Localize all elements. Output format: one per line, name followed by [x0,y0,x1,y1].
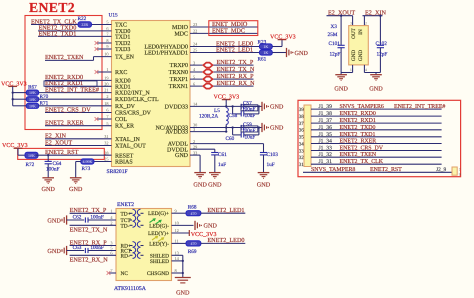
svg-text:19: 19 [104,76,108,81]
label J1_38 [319,111,333,117]
svg-text:C58: C58 [229,113,238,119]
wire GND to C63 [67,250,85,252]
connector pin 38 wire ENET2_RXD0 [311,115,442,117]
svg-text:8: 8 [175,268,177,273]
net label ENET2_RXER J1 [340,139,377,145]
svg-text:ENET2_LED0: ENET2_LED0 [207,237,244,244]
value 100nF C63 [90,245,104,251]
net label E2_XOUT [45,139,72,146]
svg-text:3: 3 [350,21,352,25]
net label ENET2_TXD0 [39,25,77,32]
wire VCC to R72 [18,154,25,156]
svg-text:GND: GND [175,153,189,159]
wire ENET2_TXEN [45,57,112,61]
value SR8201F [107,169,128,175]
ground GND C62 [47,215,66,224]
svg-text:GND: GND [295,50,309,57]
svg-text:9: 9 [459,173,461,177]
pin number 39 J1 [299,107,305,113]
svg-text:GND: GND [358,50,364,61]
designator C102 [376,41,388,47]
resistor R68 [186,211,201,216]
svg-text:11: 11 [175,239,179,244]
svg-text:GND: GND [334,86,348,93]
svg-text:22: 22 [193,29,197,34]
ferrite bead ENET2_TX_P [203,63,212,68]
net label ENET2_TX_N [217,66,255,73]
power VCC_3V3 LED [270,35,296,41]
resistor R67 [26,90,38,95]
net label ENET2_TX_N [70,226,108,233]
svg-text:23: 23 [193,22,197,27]
designator R72 [26,162,35,168]
U1 right pin names [144,25,188,159]
wire ENET2_INT_TREE# [39,92,112,94]
designator C57 [243,101,252,107]
IC U15 SR8201F body [112,21,191,167]
crystal X3 body [349,26,369,65]
svg-text:ENET2_RXER: ENET2_RXER [340,139,377,145]
svg-text:12pF: 12pF [330,51,341,57]
wire ENET2_LED1 to R61 [190,52,259,54]
net label ENET2_RX_N [217,80,256,87]
junction dot C102 tap [379,15,381,17]
label J1_34 [319,139,333,145]
wire ENET2_TX_N [70,224,116,226]
wire RBIAS to R73 [94,161,112,163]
svg-text:ENET_MDC: ENET_MDC [212,27,245,34]
svg-text:9: 9 [175,208,177,213]
crystal pin numbers [350,21,367,72]
ground GND C57 [262,102,284,111]
svg-text:SNVS_TAMPER8: SNVS_TAMPER8 [311,167,355,173]
designator C64 [53,161,62,167]
pin number 37 J1 [299,121,305,127]
svg-text:GND: GND [270,125,284,132]
wire DVDDL pin29 [190,149,215,152]
selection box 100nF C59 [241,126,258,132]
svg-text:RX_ER: RX_ER [115,124,134,130]
wire DVDD33 rail [190,105,259,107]
wire pin12 to VCC [172,232,190,234]
svg-text:29: 29 [193,144,197,149]
svg-text:12pF: 12pF [377,51,388,57]
svg-text:ENET2_CRS_DV: ENET2_CRS_DV [340,146,384,152]
label J1_35 [319,132,333,138]
wire VCC to R67 [13,92,27,94]
capacitor C102 [377,16,384,73]
svg-text:32: 32 [299,155,305,161]
connector pin 31 wire ENET2_TX_CLK [311,163,442,165]
wire ENET2_RXD0 [45,79,112,81]
svg-text:RXD1: RXD1 [115,84,131,90]
red highlight box MDIO MDC [209,21,258,36]
net label ENET2_RX_P [70,239,108,246]
svg-text:10K: 10K [29,90,36,95]
svg-text:100nF: 100nF [46,167,60,173]
crystal X3 pin names [351,27,364,61]
designator C60 [226,136,235,142]
svg-text:J1_38: J1_38 [319,111,333,117]
svg-text:R67: R67 [28,85,37,91]
svg-text:ENET2_TX_CLK: ENET2_TX_CLK [340,159,384,165]
designator R70 [40,94,49,100]
wire pin14 shield [172,260,183,262]
svg-text:R22: R22 [78,16,87,22]
capacitor C57 [241,104,259,109]
wire ENET2_TXD0 [38,30,112,32]
svg-text:2: 2 [106,94,108,99]
svg-text:R68: R68 [188,205,197,211]
ferrite bead ENET2_TX_N [203,70,212,75]
svg-text:RXD3/CLK_CTL: RXD3/CLK_CTL [115,97,159,103]
ground GND pin33 [193,173,207,189]
resistor R69 [186,241,201,246]
svg-text:ENET2_RXD1: ENET2_RXD1 [340,118,376,124]
svg-text:25M: 25M [328,32,338,38]
wire ENET2_TX_P [70,212,116,214]
net label ENET2_INT_TREE# [45,86,99,93]
red highlight box connector [298,100,461,176]
net label ENET2_RXD1 [45,80,83,87]
power VCC_3V3 main [214,94,240,106]
svg-text:C61: C61 [218,152,227,158]
resistor R72 [25,152,38,158]
wire R23 to VCC [272,40,282,47]
svg-text:TD-: TD- [121,223,130,229]
net label ENET2_TXEN [45,54,84,61]
svg-text:TXD1: TXD1 [115,34,130,40]
net label ENET2_RST J2 [370,167,402,173]
svg-text:R23: R23 [258,40,267,46]
svg-text:GND: GND [270,103,284,110]
svg-text:ENET2_RXER: ENET2_RXER [45,120,84,127]
wire VCC to R70 [13,98,27,100]
wire ENET2_CRS_DV [45,112,112,114]
capacitor C101 [338,16,345,73]
svg-text:4.99K: 4.99K [82,159,92,164]
wire E2_XIN crystal [363,16,383,26]
svg-text:TRXP0: TRXP0 [170,63,188,69]
designator X3 [331,24,338,30]
wire crystal gnd right [364,65,380,73]
wire R68 to ENET2_LED1 [201,212,245,214]
svg-text:XTAL_IN: XTAL_IN [115,137,141,143]
net label ENET2_CRS_DV J1 [340,146,384,152]
transformer left pin names [121,211,132,277]
ground GND R73 [69,178,83,193]
svg-text:C103: C103 [267,152,279,158]
ferrite bead ENET2_RX_P [203,77,212,82]
svg-text:LED1/PHYADD1: LED1/PHYADD1 [144,51,188,57]
svg-text:9: 9 [106,44,108,49]
value 100nF C59 [242,128,256,134]
svg-text:ATK911105A: ATK911105A [114,286,147,292]
label J1_36 [319,125,333,131]
wire ENET2_RX_N [70,254,116,256]
svg-text:GND: GND [69,186,83,193]
svg-text:ENET2_TX_P: ENET2_TX_P [70,207,107,214]
no-connect pin 7 COL [95,117,112,121]
svg-text:39: 39 [299,107,305,113]
wire ENET_MDC [190,32,258,34]
svg-text:GND: GND [369,86,383,93]
wire E2_XOUT crystal [327,16,353,26]
connector pin 34 wire ENET2_RXER [311,143,442,145]
svg-text:ENET2: ENET2 [117,202,134,208]
svg-text:ENET2_INT_TREE#: ENET2_INT_TREE# [45,86,99,93]
svg-text:GND: GND [47,248,61,255]
capacitor C61 [211,153,218,173]
wire VCC to R71 [13,105,27,107]
ground GND chassis [175,278,191,297]
svg-text:ENET2_TX_N: ENET2_TX_N [70,226,108,233]
net label ENET2_LED0 transformer [207,237,244,244]
svg-text:10: 10 [175,221,179,226]
value 10uF C58 [245,113,256,119]
svg-text:1uF: 1uF [267,162,275,168]
resistor R70 [26,97,38,102]
value 120R,2A L5 [199,113,218,119]
wire pin10 to gnd [172,224,194,226]
label J1_32 [319,152,333,158]
designator R68 [188,205,197,211]
wire R61 to ground [272,52,286,54]
label J1_31 [319,159,333,165]
svg-text:10uF: 10uF [245,113,256,119]
power VCC_3V3 left rail [1,81,27,105]
net label ENET2_RXD1 J1 [340,118,376,124]
svg-text:GND: GND [47,217,61,224]
U1 right pin numbers [193,22,198,155]
svg-text:SR8201F: SR8201F [107,169,128,175]
resistor R73 [81,159,94,164]
svg-text:100nF: 100nF [90,245,104,251]
wire R71 to pin 18 [39,105,112,107]
net label ENET2_TXD1 [39,30,77,37]
svg-text:22R: 22R [81,22,88,27]
designator R71 [40,101,49,107]
connector pin 9 wire ENET2_RST [303,171,453,173]
capacitor C63 [85,248,88,253]
wire AVDD33 pin3 [190,128,226,132]
net label SNVS_TAMPER8 [311,167,355,173]
pin number 34 J1 [299,141,305,147]
label J1_37 [319,118,333,124]
designator C59 [243,122,252,128]
ground GND C61 [208,173,222,189]
U1 left pin names [115,23,159,166]
wire R70 to pin 2 [39,98,112,100]
svg-text:J1_36: J1_36 [319,125,333,131]
svg-text:MDIO: MDIO [172,25,189,31]
svg-text:ENET2_RX_N: ENET2_RX_N [217,80,256,87]
ground GND crystal right [369,73,383,93]
svg-text:OUT: OUT [351,27,357,38]
resistor R23 [259,44,272,49]
svg-text:1: 1 [350,68,352,72]
net label ENET2_TX_P [217,59,254,66]
svg-text:J1_34: J1_34 [319,139,333,145]
svg-text:8: 8 [106,38,108,43]
svg-text:5: 5 [193,74,195,79]
net label ENET2_RXD0 J1 [340,111,376,117]
svg-text:ENET2_TXD0: ENET2_TXD0 [340,125,376,131]
no-connect pin 8 TXD2 [95,41,112,45]
junction dot chsgnd [182,272,184,274]
svg-text:34: 34 [299,141,305,147]
svg-text:21: 21 [104,88,108,93]
svg-text:J2_9: J2_9 [436,167,446,173]
net label SNVS_TAMPER6 J1 [340,104,384,110]
wire pin11 to R69 [172,242,187,244]
capacitor C59 [241,125,259,130]
svg-text:GND: GND [193,182,207,189]
svg-text:TRXN0: TRXN0 [169,70,188,76]
LED green arrows [150,219,162,224]
svg-text:12: 12 [175,228,179,233]
inductor L5 [226,106,228,127]
svg-text:C63: C63 [73,245,82,251]
capacitor C62 [85,217,88,222]
wire pin8 chsgnd [172,261,183,277]
pin number 38 J1 [299,114,305,120]
svg-text:10K: 10K [28,153,35,158]
svg-text:31: 31 [299,162,305,168]
net label E2_XIN [45,133,66,140]
svg-text:J1_31: J1_31 [319,159,333,165]
svg-text:7: 7 [459,168,461,172]
pin number 36 J1 [299,128,305,134]
svg-text:AVDD33: AVDD33 [165,130,188,136]
transformer right pin names [147,211,169,277]
connector pin 36 wire ENET2_TXD0 [311,129,442,131]
junction dots VCC rail [12,91,14,100]
svg-text:RD-: RD- [121,253,130,259]
net label E2_XIN crystal [365,10,386,17]
net label ENET2_RXD0 [45,74,83,81]
net label ENET_MDC [212,27,245,34]
wire ENET2_RST [36,154,112,156]
svg-text:3: 3 [193,60,195,65]
ground GND C63 [47,246,66,255]
svg-text:2: 2 [193,139,195,144]
net label ENET2_LED1 transformer [207,207,244,214]
wire ENET2_RX_P [70,245,116,247]
svg-text:VCC_3V3: VCC_3V3 [270,35,296,41]
svg-text:10K: 10K [29,97,36,102]
designator R23 [258,40,267,46]
designator C101 [329,41,341,47]
svg-text:ENET2_RX_N: ENET2_RX_N [70,256,109,263]
designator C103 [267,152,279,158]
svg-text:CHSGND: CHSGND [147,271,169,277]
svg-text:ENET2_RST: ENET2_RST [45,149,79,156]
svg-text:RXC: RXC [115,70,127,76]
svg-text:IN: IN [358,29,364,35]
svg-text:R69: R69 [188,249,197,255]
capacitor C58 [233,106,259,116]
net label ENET2_TX_CLK J1 [340,159,384,165]
capacitor C64 [45,155,52,177]
no-connect pin 1 RXC [95,70,112,74]
transformer T1 body [116,209,172,281]
svg-text:CRS/CRS_DV: CRS/CRS_DV [115,111,152,117]
designator R73 [82,166,91,172]
svg-text:ENET2_TXEN: ENET2_TXEN [340,152,377,158]
svg-text:J1_32: J1_32 [319,152,333,158]
svg-text:J1_35: J1_35 [319,132,333,138]
net label ENET2_RST [45,149,79,156]
svg-text:LED(G)+: LED(G)+ [148,211,169,217]
wire E2_XOUT [45,145,112,147]
wire R69 to ENET2_LED0 [201,242,245,244]
svg-text:TXD3: TXD3 [115,47,130,53]
no-connect pin 9 TXD3 [95,47,112,51]
svg-text:LED(Y)-: LED(Y)- [149,241,169,247]
svg-text:GND: GND [176,290,190,297]
wire E2_XIN [45,138,112,140]
svg-text:GND: GND [41,186,55,193]
wire ENET2_TXD1 [38,35,112,37]
resistor R71 [26,103,38,108]
svg-text:2: 2 [365,21,367,25]
wire DVDD33 gnd stub [259,105,262,107]
wire ENET2_RXD1 [45,85,112,87]
net label ENET2_RXER [45,120,84,127]
svg-text:C60: C60 [226,136,235,142]
red highlight box left nets [25,16,102,130]
net label ENET2_TX_CLK [31,18,77,25]
svg-text:31: 31 [104,134,108,139]
value ATK911105A [114,286,147,292]
capacitor C60 [233,128,259,138]
pin number 7 J2 [459,168,461,172]
net label E2_XOUT crystal [328,10,355,17]
wire ENET2_TX_CLK [31,24,112,26]
transformer right pin numbers [175,208,180,273]
wire AVDD33 gnd stub [259,127,262,129]
label J1_33 [319,146,333,152]
svg-text:NC: NC [121,271,129,277]
net label ENET2_TXEN J1 [340,152,377,158]
svg-text:R72: R72 [26,162,35,168]
svg-text:ENET2_INT_TREE#: ENET2_INT_TREE# [394,104,445,110]
power VCC_3V3 pin12 [189,230,216,238]
value 1uF C61 [218,162,226,168]
capacitor C103 [260,153,267,173]
svg-text:470: 470 [190,241,196,246]
svg-text:C62: C62 [73,215,82,221]
svg-text:35: 35 [299,135,305,141]
designator R67 [28,85,37,91]
svg-text:36: 36 [299,128,305,134]
svg-text:10K: 10K [29,103,36,108]
svg-text:X3: X3 [331,24,338,30]
svg-text:U15: U15 [109,13,118,19]
svg-text:RX_DV: RX_DV [115,104,136,110]
svg-text:C101: C101 [329,41,341,47]
selection box 100nF C57 [241,105,258,111]
wire ENET_MDIO [190,26,258,28]
svg-text:XTAL_OUT: XTAL_OUT [115,144,146,150]
ground GND C59 [262,123,284,132]
connector pin 32 wire ENET2_TXEN [311,156,442,158]
svg-text:33: 33 [299,148,305,154]
junction dots AVDD33 rail [225,126,260,132]
wire C62 to TCT [88,219,116,221]
value 100nF C62 [90,215,104,221]
